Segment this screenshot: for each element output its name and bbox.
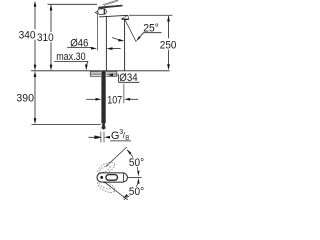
arrow 107 right pointing left <box>124 98 130 101</box>
svg-text:50°: 50° <box>129 186 144 198</box>
arrow arc top at diagonal <box>127 149 132 154</box>
axis line right <box>127 176 141 178</box>
G3/8 left arrow <box>89 136 101 139</box>
svg-text:390: 390 <box>16 93 34 105</box>
hose neck <box>102 123 105 126</box>
top view pivot dot <box>100 176 103 179</box>
arrow 250 top up <box>167 16 170 22</box>
lever knob <box>98 9 107 15</box>
arrowhead angle reference <box>118 39 124 42</box>
underline max.30 <box>54 60 88 62</box>
arrow 340 bottom down at deck <box>34 65 37 71</box>
G3/8 right arrow <box>104 136 110 139</box>
hose connector tip <box>102 126 106 128</box>
dim 107 left shaft <box>86 98 95 100</box>
phantom knob swung down (dashed loop) <box>96 178 117 195</box>
faucet column top edge <box>99 15 128 17</box>
mounting washer right <box>106 71 117 76</box>
extension line 310 top <box>48 3 98 5</box>
top view inner slot <box>106 175 118 181</box>
spout nose <box>122 15 129 19</box>
leader max.30 <box>87 61 89 65</box>
svg-text:310: 310 <box>37 32 54 44</box>
extension line 390 bottom / hose end <box>32 123 101 125</box>
underline Ø34 <box>119 81 140 83</box>
arrow Ø46 right <box>91 47 97 50</box>
arrow 310 bottom down at deck <box>50 65 53 71</box>
arrow max.30 down at deck <box>85 65 88 71</box>
dim line 250 vertical at x=168.5 <box>168 16 170 65</box>
threaded stud / flexible hose <box>101 71 105 123</box>
top view chord <box>123 173 125 182</box>
svg-text:107: 107 <box>107 95 122 107</box>
angle arc top <box>127 150 138 170</box>
leader 25deg <box>139 33 143 38</box>
arrow arc top at axis <box>137 171 139 177</box>
arrow 310 top up <box>50 4 53 10</box>
underline 25deg <box>143 32 161 34</box>
svg-text:340: 340 <box>19 29 36 41</box>
knob stem <box>103 9 105 15</box>
aerator face <box>122 18 129 20</box>
mounting washer left <box>90 71 101 76</box>
top view capsule body <box>97 173 127 182</box>
arrow Ø46 inner left <box>107 47 113 50</box>
arrow arc bottom at axis <box>137 178 139 184</box>
arrow 340 top up <box>34 1 37 7</box>
arrow 107 left pointing right <box>96 98 102 101</box>
angle arc bottom <box>124 184 138 200</box>
deck counter line <box>31 70 170 72</box>
faucet column right edge <box>124 19 126 71</box>
arrow 390 bottom down <box>34 118 37 124</box>
curved arrow to column edge (angle reference) <box>112 38 119 41</box>
spray direction line 25deg <box>125 20 136 42</box>
swivel diagonal top <box>106 147 127 167</box>
arrow 250 bottom down at deck <box>167 64 170 70</box>
phantom knob swung up (dashed loop) <box>96 160 117 177</box>
dim line 310 vertical at x=51 <box>50 5 52 65</box>
G3/8 extension ticks <box>101 132 104 143</box>
shaft Ø46 inner <box>112 48 120 50</box>
underline G3/8 <box>110 140 131 142</box>
faucet column left edge <box>105 17 107 71</box>
extension line knob left edge <box>96 13 98 50</box>
arrow arc bottom at diagonal <box>123 194 129 199</box>
knob left wedge <box>95 11 97 14</box>
swivel diagonal bottom <box>104 182 129 201</box>
arrow 25deg onto spray line <box>136 36 141 41</box>
leader Ø34 <box>113 75 119 82</box>
extension line 107 right <box>123 84 125 104</box>
arrow 390 top up below deck <box>34 71 37 77</box>
dim 107 right shaft <box>130 98 138 100</box>
stud thread highlights <box>101 80 106 118</box>
arrow Ø34 left <box>107 74 113 77</box>
phantom raised lever <box>103 0 118 5</box>
lever blade <box>98 5 123 9</box>
underline Ø46 <box>67 47 91 49</box>
dim line 340/390 vertical at x=35 <box>34 7 36 119</box>
svg-text:50°: 50° <box>129 157 144 169</box>
svg-text:G: G <box>111 130 120 142</box>
extension line 250 top <box>129 14 173 16</box>
svg-text:250: 250 <box>160 39 177 51</box>
